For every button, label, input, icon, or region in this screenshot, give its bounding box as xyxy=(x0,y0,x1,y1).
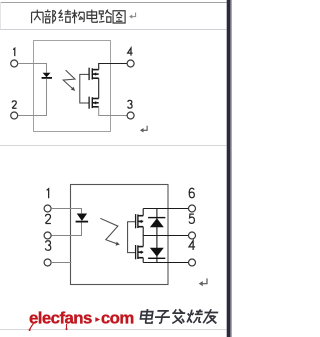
body diode D1 (points up) xyxy=(148,217,165,227)
wire LED cathode to pin 2 xyxy=(18,79,47,116)
elecfans logo text xyxy=(29,308,134,331)
mid rail to pin 5 xyxy=(143,235,188,237)
separator line between schematics xyxy=(0,145,226,146)
footer rule line xyxy=(0,329,226,330)
pin 2 label (schematic 2) xyxy=(45,214,50,223)
LED (input emitter, schematic 2) xyxy=(76,214,89,223)
pin 4 label (schematic 2) xyxy=(189,241,195,250)
MOSFET Q4 (bottom, schematic 2) xyxy=(136,245,144,259)
pin 1 label xyxy=(13,48,15,56)
pin 2 label xyxy=(12,101,16,108)
LED (input emitter) xyxy=(42,73,52,79)
pin 3 terminal xyxy=(127,112,134,119)
wire Q1 source to Q2 drain xyxy=(98,78,100,98)
light arrow (optical coupling, schematic 2) xyxy=(100,218,120,245)
package outline box (schematic 1) xyxy=(34,41,111,132)
wire pin3 stub (NC) xyxy=(51,262,71,264)
svg-text:com: com xyxy=(101,308,134,327)
pin 1 terminal (schematic 2) xyxy=(44,205,51,212)
package outline box (schematic 2) xyxy=(71,185,169,285)
pin 1 terminal xyxy=(11,60,18,67)
wire LED cathode to pin 2 (schematic 2) xyxy=(51,223,81,236)
pin 3 label (schematic 2) xyxy=(45,241,50,251)
footer text 电子发烧友 xyxy=(140,309,219,324)
pin 5 label xyxy=(189,214,194,223)
wire Q3 drain to top rail xyxy=(142,209,144,216)
right dark scrollbar/border bar xyxy=(227,0,231,337)
paragraph mark after title xyxy=(129,12,136,18)
pin 6 terminal xyxy=(189,205,196,212)
MOSFET Q3 (top, schematic 2) xyxy=(136,214,144,228)
pin 2 terminal xyxy=(11,112,18,119)
diode bus vertical wire xyxy=(156,209,158,263)
light arrow (optical coupling, schematic 1) xyxy=(63,70,75,91)
svg-text:elecfans: elecfans xyxy=(29,308,92,327)
wire pin1 to LED anode xyxy=(18,64,47,73)
wire Q4 drain to mid rail xyxy=(142,236,144,247)
faint left cell border xyxy=(0,2,2,30)
pin 4 terminal xyxy=(127,60,134,67)
gate bus wire (schematic 1) xyxy=(80,74,89,103)
pin 6 label xyxy=(189,188,194,198)
MOSFET Q1 (top, schematic 1) xyxy=(89,68,99,80)
pin 3 terminal (schematic 2) xyxy=(44,259,51,266)
wire Q2 source to pin 3 xyxy=(99,107,128,116)
MOSFET Q2 (bottom, schematic 1) xyxy=(89,97,99,109)
pin 1 label (schematic 2) xyxy=(47,189,49,199)
top rail to pin 6 xyxy=(143,208,188,210)
pin 5 terminal xyxy=(189,232,196,239)
top rule line xyxy=(0,2,227,3)
paragraph mark after schematic 1 xyxy=(140,126,147,133)
wire Q4 source to bottom rail xyxy=(142,258,144,263)
pin 3 label xyxy=(128,100,132,108)
title text 内部结构电路图 xyxy=(32,10,126,24)
pin 2 terminal (schematic 2) xyxy=(44,232,51,239)
wire Q1 drain to pin 4 xyxy=(99,64,128,70)
wire Q3 source to mid rail xyxy=(142,227,144,236)
pin 4 label xyxy=(128,48,133,56)
bottom rail to pin 4 xyxy=(143,262,188,264)
paragraph mark after schematic 2 xyxy=(199,278,207,286)
pin 4 terminal (schematic 2) xyxy=(189,259,196,266)
title row bottom rule xyxy=(0,29,226,30)
wire pin1 to LED anode (schematic 2) xyxy=(51,209,81,214)
gate bus wire (schematic 2) xyxy=(128,222,136,253)
body diode D2 (points down) xyxy=(148,248,165,259)
